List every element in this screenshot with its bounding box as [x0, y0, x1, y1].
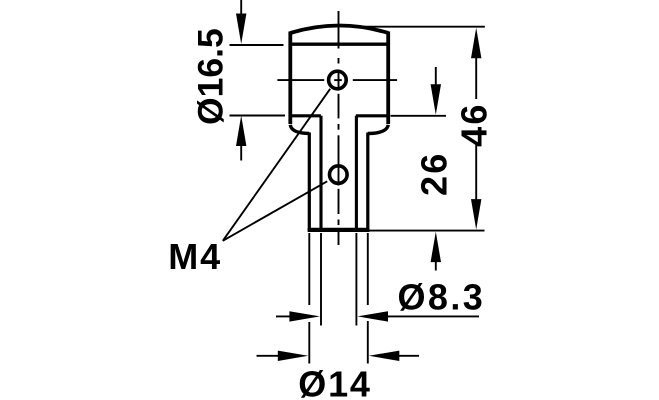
svg-text:Ø8.3: Ø8.3 — [398, 276, 486, 317]
part outline: head right side — [386, 32, 390, 125]
svg-text:M4: M4 — [168, 236, 222, 277]
extension line Ø14 left (x=309.3, with gap at Ø8.3 dim row) — [308, 233, 310, 364]
part outline: bore line right (x=356.4) — [355, 116, 358, 231]
dimension 26 bottom arrow (outside, below y=230.6) — [431, 232, 441, 271]
horizontal centerline of upper hole (y=80.1) — [277, 79, 397, 81]
part outline: shaft right side (x=367.8) — [366, 133, 369, 232]
dimension Ø14 left arrow (pointing right at x=309.3) — [257, 351, 309, 361]
part outline: dome top arc — [290, 26, 388, 34]
dimension 46 line with inside arrows (x=476.2) — [471, 28, 481, 230]
part outline: shaft left side (x=309.3) — [308, 133, 311, 232]
dimension Ø16.5 top arrow (x=241, pointing down at y=44) — [236, 0, 246, 44]
extension line Ø8.3 right (x=356.4, below part) — [355, 233, 357, 326]
part outline: right skirt curve — [368, 125, 388, 134]
extension line Ø8.3 left (x=321, below part) — [320, 233, 322, 326]
dimension Ø8.3 right arrow (pointing left at x=356.4) with shelf — [358, 311, 480, 321]
extension line right of step for 26 dim (y=115.8) — [391, 115, 447, 117]
part outline: shaft bottom face (y=229.9) — [308, 228, 370, 232]
lower hole M4 (circle) — [330, 166, 348, 184]
vertical centerline (dash-dot, x=338.5) — [338, 11, 340, 245]
part outline: bore line left (x=321) — [319, 116, 322, 231]
svg-text:26: 26 — [414, 152, 455, 196]
dimension 26 top arrow (outside, above y=115.8) — [431, 67, 441, 115]
svg-text:46: 46 — [454, 102, 495, 146]
part outline: band line under dome (y=44.2) — [289, 43, 390, 46]
part outline: step bottom-left of head (y=115.8) — [289, 114, 321, 117]
leader line M4 to upper hole — [223, 89, 330, 241]
svg-text:Ø14: Ø14 — [298, 364, 371, 400]
upper hole M4 (circle) — [329, 71, 347, 89]
bottom extension line continuing right from part bottom (y=230.6) — [369, 230, 485, 232]
dimension Ø16.5 bottom arrow (x=241, pointing up at y=115.5) — [236, 116, 246, 161]
part outline: head left side — [288, 32, 292, 125]
leader line M4 to lower hole — [223, 181, 327, 241]
dimension Ø8.3 left arrow (pointing right at x=321) — [276, 311, 320, 321]
part outline: left skirt curve — [290, 125, 309, 134]
part outline: step bottom-right of head (y=115.8) — [356, 114, 390, 117]
extension line top of 46 dim (right of dome, y=26.7) — [358, 26, 485, 28]
dimension Ø14 right arrow (pointing left at x=367.8) — [369, 351, 419, 361]
extension line bottom of Ø16.5 dim (left of head, y=115.5) — [230, 115, 286, 117]
extension line Ø14 right (x=367.8, with gap at Ø8.3 dim row) — [367, 233, 369, 364]
extension line top of Ø16.5 dim (left of head, y=45) — [230, 44, 284, 46]
svg-text:Ø16.5: Ø16.5 — [191, 28, 231, 125]
